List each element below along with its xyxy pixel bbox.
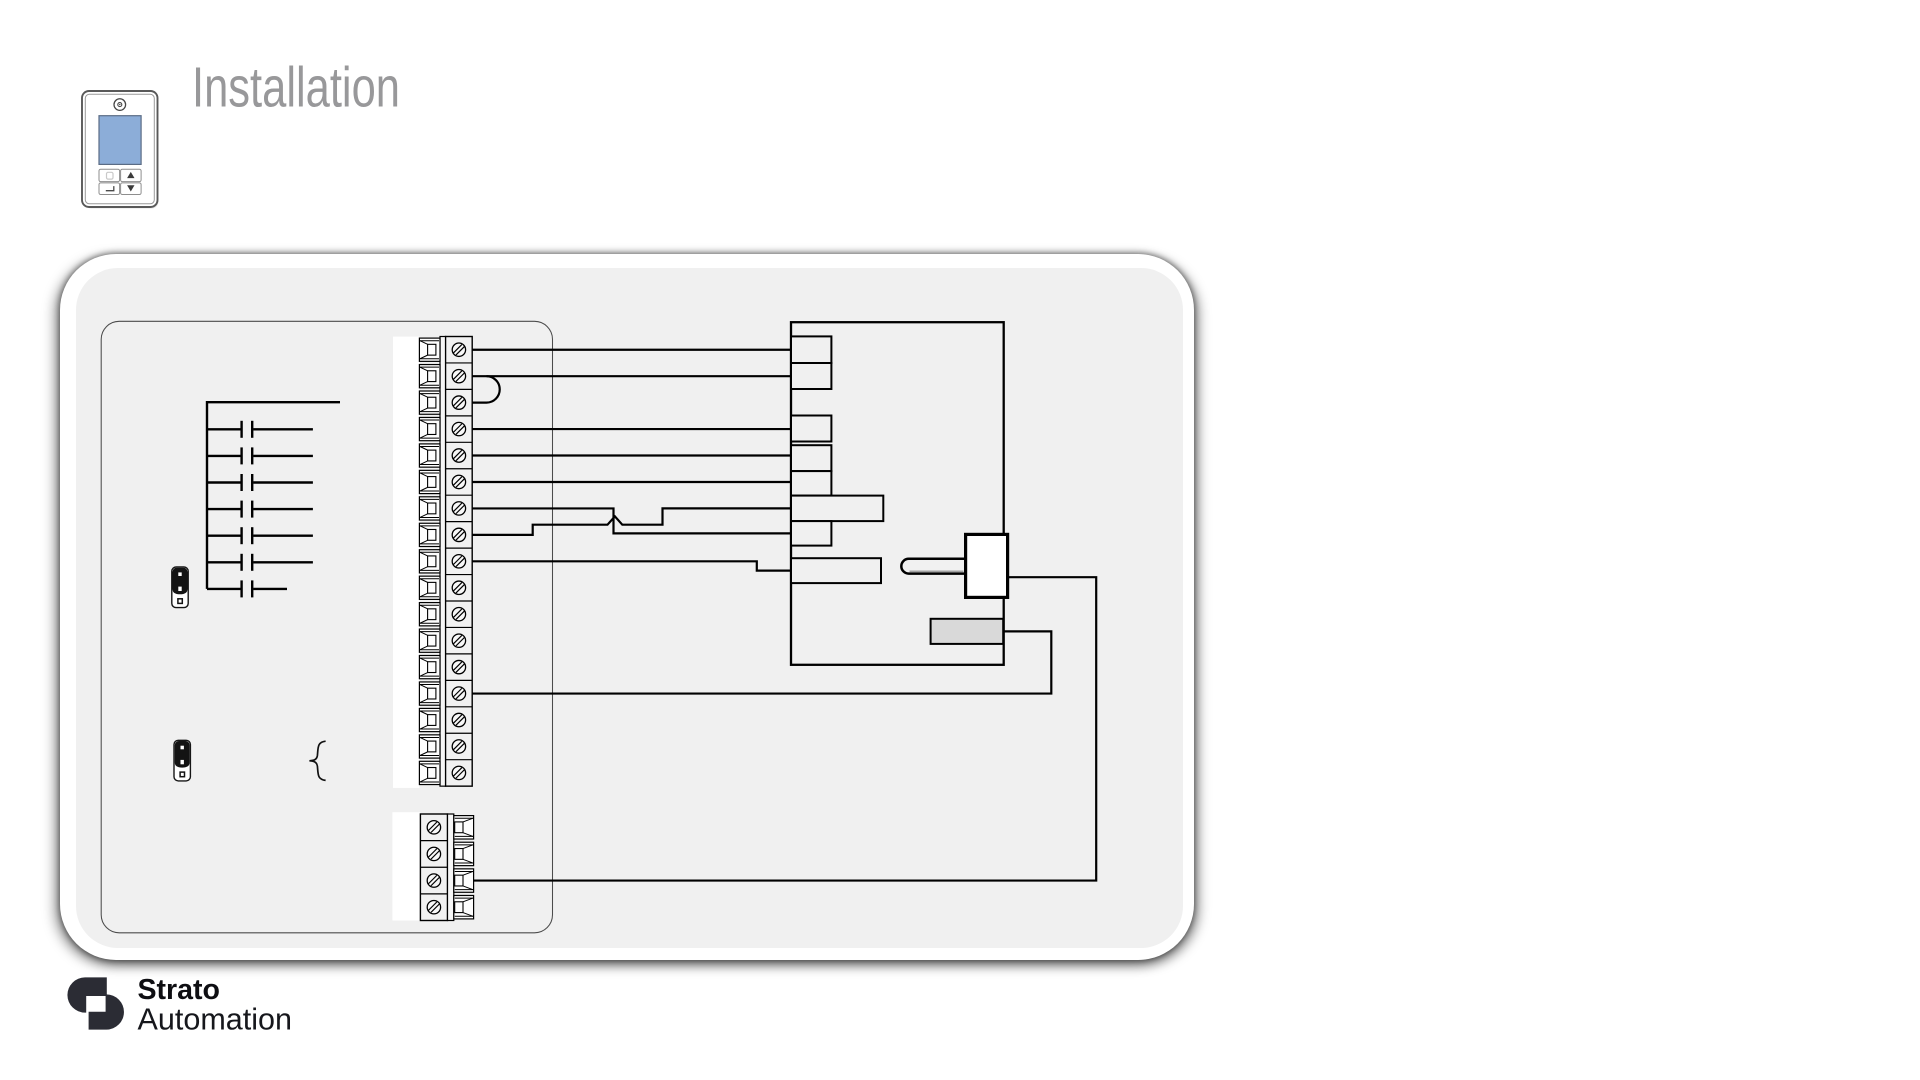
thermostat icon body [82,91,159,209]
panel card [60,254,1194,960]
contact K7 [207,580,287,597]
terminal screw 9 [452,555,465,568]
wire terminal14 to component [472,631,1051,693]
switch lever [901,559,965,574]
contact ladder bus [206,401,208,589]
terminal strip TB2 body [420,814,473,921]
terminal screw 11 [452,608,465,621]
thermostat sensor circle [114,99,126,111]
terminal clamp 5 [419,444,440,467]
terminal screw 2 [452,369,465,382]
terminal screw 6 [452,475,465,488]
terminal clamp 6 [419,470,440,493]
wire terminal5 to CN box4 [472,454,791,456]
terminal screw 16 [452,740,465,753]
brace [309,741,325,780]
wire loop terminal3 to terminal2 [472,376,500,402]
contact K3 [207,474,313,491]
CN box6 wide [791,496,883,521]
wire terminal7 to CN box7 [472,508,791,533]
terminal clamp 17 [419,761,440,784]
terminal clamp 13 [419,656,440,679]
svg-text:Installation: Installation [192,56,400,120]
terminal clamp 15 [419,708,440,731]
jumper JP1 [172,567,188,608]
terminal clamp 9 [419,550,440,573]
terminal clamp 16 [419,735,440,758]
bottom terminal screw 2 [427,847,440,860]
CN box7 [791,521,831,546]
bottom terminal clamp 1 [454,816,474,839]
terminal clamp 3 [419,391,440,414]
white pcb band top [393,337,419,788]
thermostat button down [121,183,142,195]
terminal screw 4 [452,422,465,435]
equipment block CN [791,322,1004,665]
bottom terminal screw 3 [427,874,440,887]
terminal screw 1 [452,343,465,356]
terminal screw 5 [452,449,465,462]
terminal clamp 14 [419,682,440,705]
contact K2 [207,447,313,464]
terminal screw 12 [452,634,465,647]
terminal screw 10 [452,581,465,594]
contact K1 [207,421,313,438]
terminal screw 17 [452,766,465,779]
logo mark [67,977,124,1029]
terminal screw 7 [452,502,465,515]
contact K5 [207,527,313,544]
wire terminal9 to CN box8 [472,561,791,570]
terminal screw 3 [452,396,465,409]
wire terminal8 to CN box6 with hop [472,508,791,534]
component C1 (gray) [931,619,1004,644]
wire terminal2 to CN box2 [472,375,791,377]
contact K6 [207,554,313,571]
CN box5 [791,471,831,496]
terminal screw 8 [452,528,465,541]
bottom terminal clamp 3 [454,869,474,892]
white pcb band bottom [392,812,420,920]
thermostat screen [99,116,141,165]
terminal clamp 11 [419,603,440,626]
thermostat button up [121,169,142,181]
bottom terminal clamp 2 [454,842,474,865]
terminal screw 13 [452,660,465,673]
terminal screw 14 [452,687,465,700]
wire terminal4 to CN box3 [472,428,791,430]
terminal clamp 8 [419,523,440,546]
wire terminal1 to CN box1 [472,349,791,351]
svg-text:Automation: Automation [138,1003,293,1037]
contact ladder top rail [207,401,340,403]
bottom terminal screw 1 [427,821,440,834]
CN box2 [791,363,831,389]
wire terminal6 to CN box5 [472,481,791,483]
CN box1 [791,336,831,363]
switch SW1 body [966,534,1008,597]
terminal strip TB1 body [419,337,472,787]
terminal clamp 2 [419,365,440,388]
svg-text:Strato: Strato [138,974,221,1006]
terminal screw 15 [452,713,465,726]
jumper JP2 [174,740,190,781]
terminal clamp 12 [419,629,440,652]
contact K4 [207,501,313,518]
terminal clamp 10 [419,576,440,599]
CN box3 [791,416,831,442]
terminal clamp 1 [419,338,440,361]
bottom terminal screw 4 [427,900,440,913]
CN box4 [791,445,831,471]
controller board outline [101,321,552,933]
bottom terminal clamp 4 [454,895,474,918]
terminal clamp 4 [419,417,440,440]
CN box8 wide [791,558,881,583]
thermostat button menu [99,169,120,181]
wire bottom terminal3 to switch [474,577,1097,880]
terminal clamp 7 [419,497,440,520]
thermostat button enter [99,183,120,195]
